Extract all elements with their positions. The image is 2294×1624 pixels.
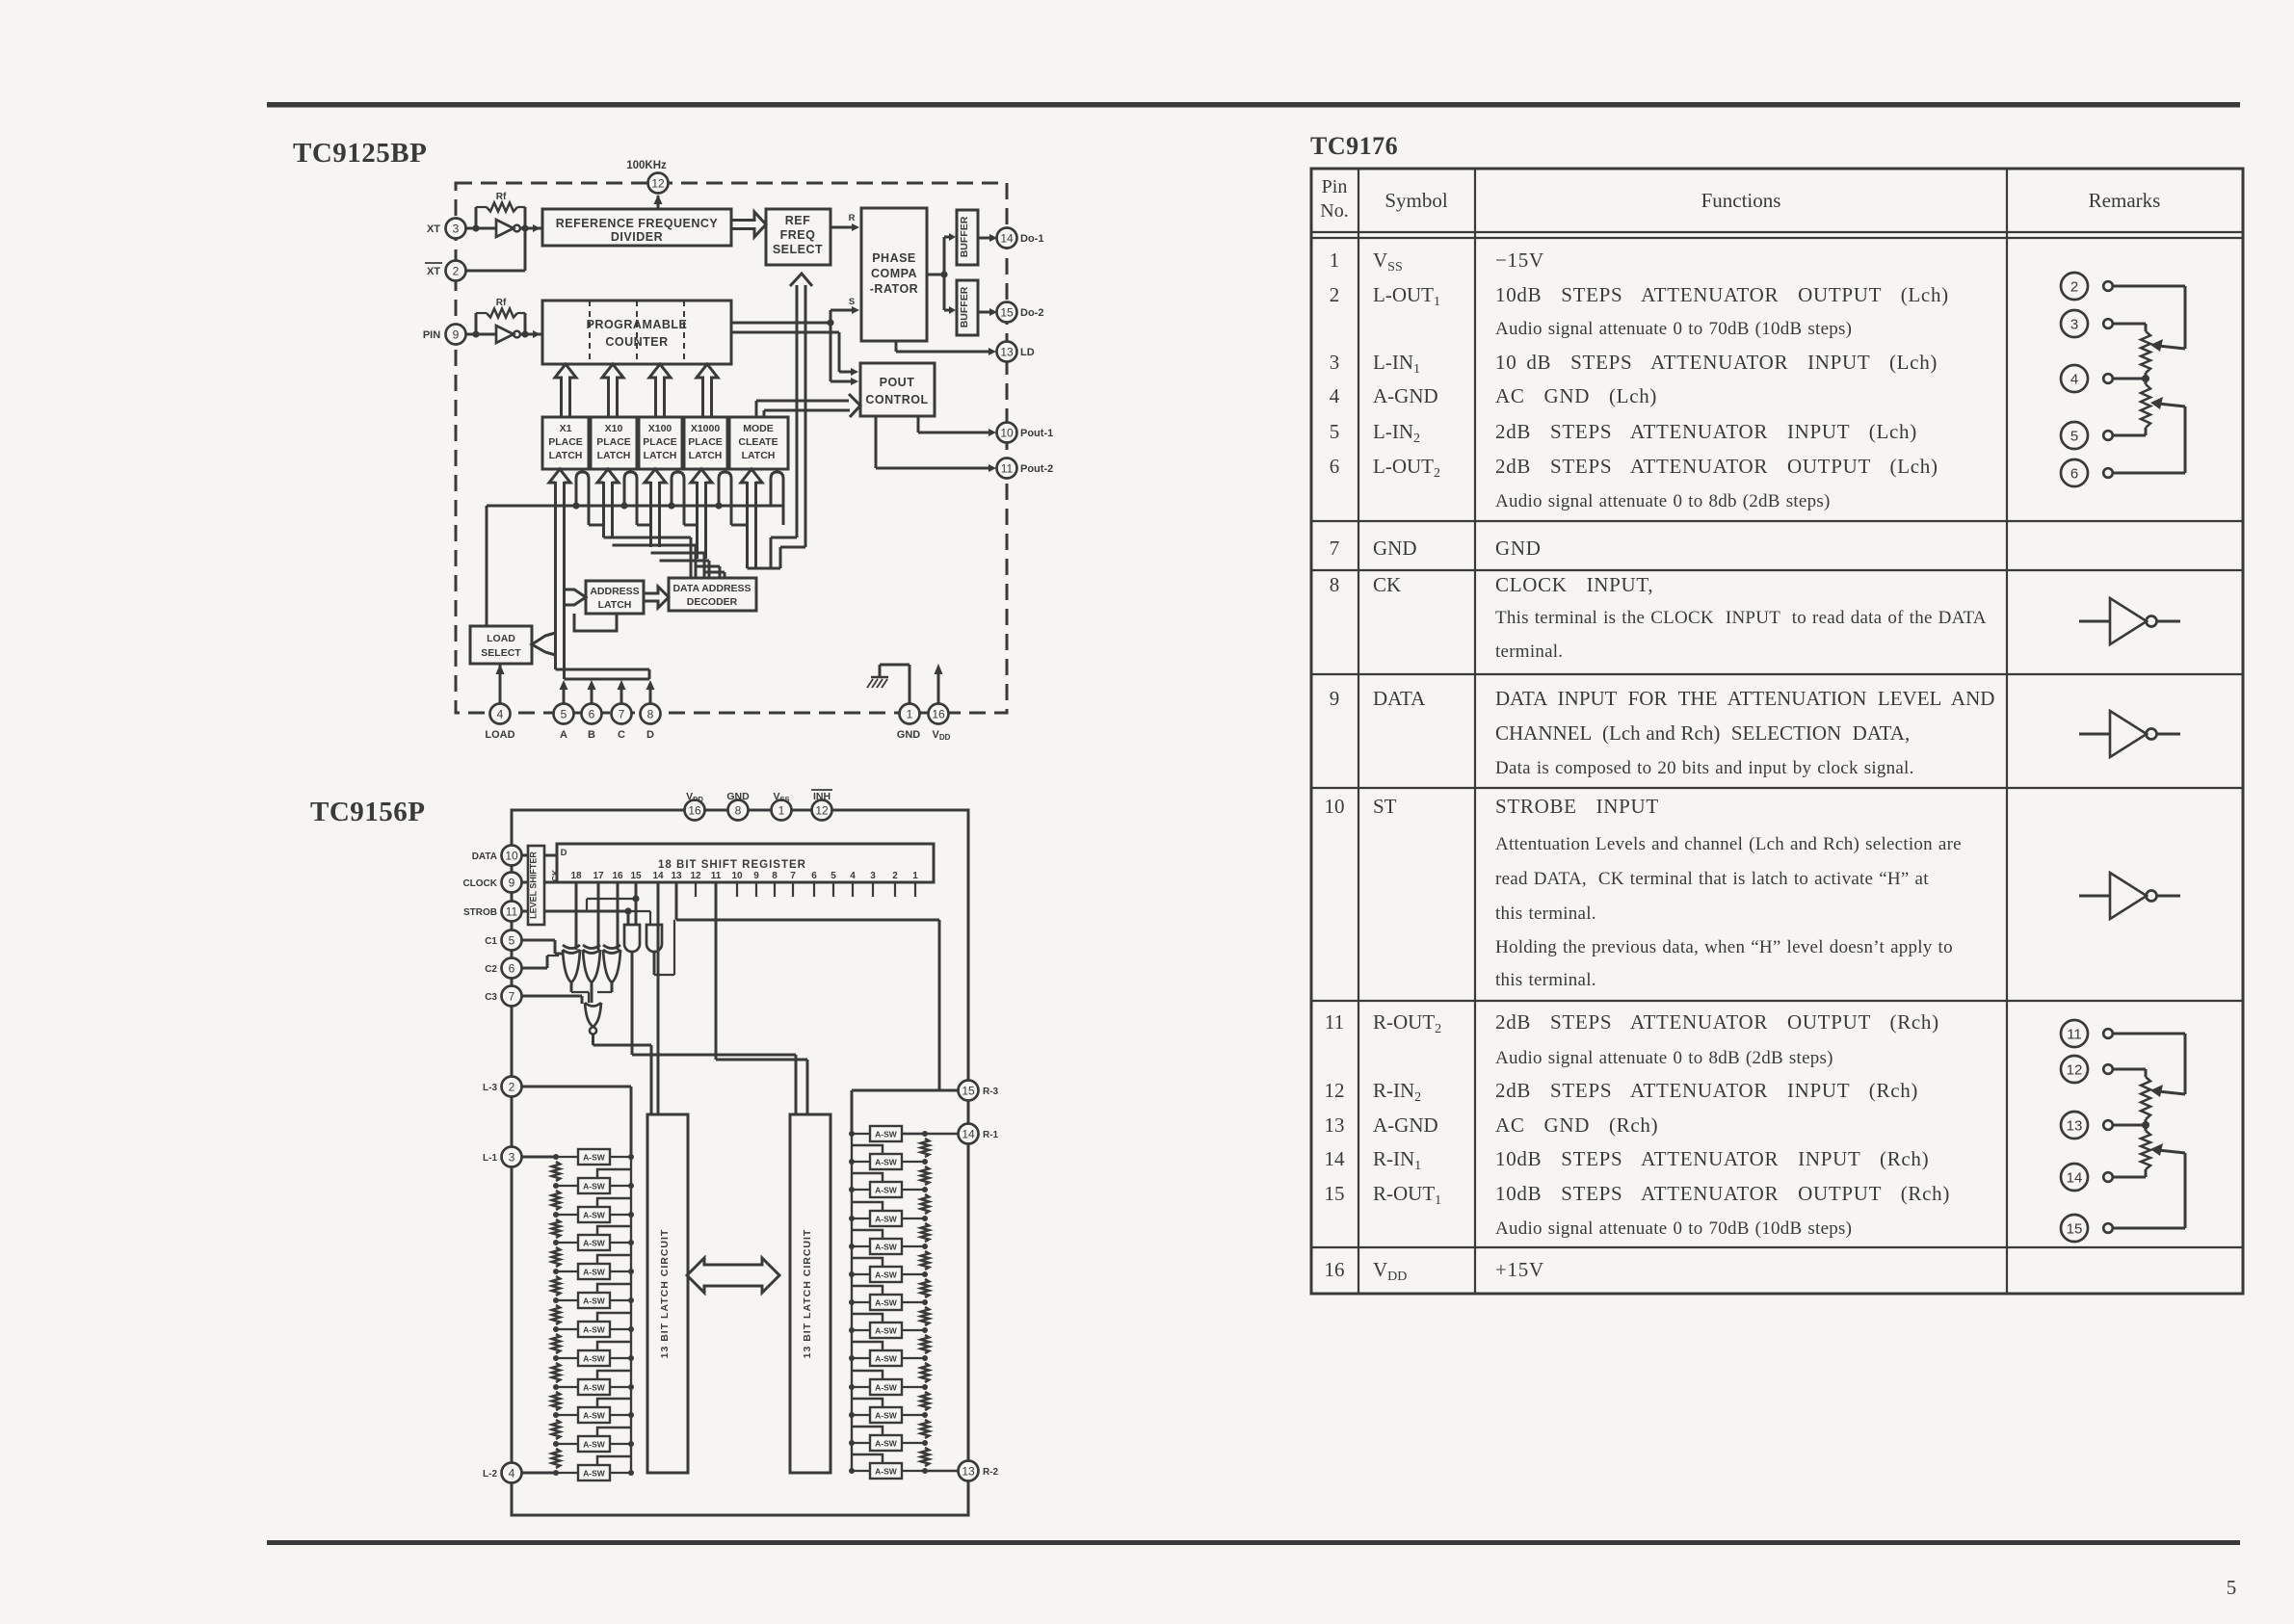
- svg-text:MODE: MODE: [743, 423, 774, 434]
- svg-text:terminal.: terminal.: [1495, 642, 1563, 662]
- pin 15 R-3: [959, 1081, 999, 1101]
- resistor ladder R6: [921, 1279, 929, 1297]
- pin 3 L-1: [483, 1147, 522, 1167]
- svg-text:X1: X1: [560, 423, 572, 434]
- resistor ladder R7: [921, 1307, 929, 1325]
- svg-text:A-SW: A-SW: [583, 1469, 606, 1479]
- wire A-D input channel: [556, 669, 650, 679]
- switch A-SW R7: [849, 1286, 928, 1310]
- svg-text:VDD: VDD: [1373, 1258, 1407, 1284]
- pin 11 STROB: [463, 902, 522, 922]
- svg-text:A-SW: A-SW: [875, 1354, 898, 1364]
- svg-text:9: 9: [453, 327, 460, 341]
- wire NOR output to left latch: [593, 1035, 652, 1114]
- block PHASE COMPARATOR: [861, 208, 927, 341]
- wire data bus into X100 latch (open arrow): [645, 469, 666, 483]
- wire latch data exchange (double open arrow): [687, 1258, 779, 1293]
- svg-text:3: 3: [870, 871, 876, 881]
- switch A-SW L5: [553, 1255, 634, 1279]
- svg-text:C: C: [618, 729, 625, 741]
- gate G2 (OR): [583, 945, 600, 982]
- svg-text:2dB STEPS ATTENUATOR INPUT: 2dB STEPS ATTENUATOR INPUT (Lch): [1495, 420, 1917, 443]
- svg-text:PLACE: PLACE: [688, 436, 723, 448]
- switch A-SW R9: [849, 1342, 928, 1366]
- svg-text:CLOCK: CLOCK: [462, 878, 497, 889]
- wire latch1 to counter (open arrow): [555, 364, 576, 417]
- svg-text:C3: C3: [485, 992, 497, 1003]
- remark inverter (ST): [2079, 873, 2180, 919]
- svg-text:A-SW: A-SW: [875, 1411, 898, 1421]
- svg-text:L-IN1: L-IN1: [1373, 351, 1420, 377]
- wire G outputs to NOR: [571, 982, 612, 1003]
- wire S-node to POUT CONTROL input 2: [831, 323, 858, 385]
- resistor ladder R8: [921, 1335, 929, 1353]
- svg-text:LATCH: LATCH: [644, 450, 677, 461]
- svg-text:1: 1: [912, 871, 918, 881]
- svg-text:A-SW: A-SW: [583, 1297, 606, 1306]
- svg-text:10: 10: [731, 871, 743, 881]
- svg-text:2: 2: [892, 871, 898, 881]
- svg-text:17: 17: [593, 871, 604, 881]
- table row pin 2 L-OUT1: [1330, 283, 1949, 339]
- svg-text:CHANNEL (Lch and Rch) SELECT: CHANNEL (Lch and Rch) SELECTION DATA,: [1495, 721, 1910, 745]
- latch X100 PLACE LATCH: [639, 417, 682, 469]
- svg-text:L-2: L-2: [483, 1469, 497, 1480]
- svg-text:8: 8: [1330, 573, 1340, 596]
- svg-text:L-OUT2: L-OUT2: [1373, 455, 1440, 481]
- pin 2 L-3: [483, 1077, 522, 1097]
- block LOAD SELECT: [470, 626, 532, 664]
- pin 14 Do-1: [997, 228, 1044, 249]
- svg-text:GND: GND: [726, 791, 750, 802]
- svg-text:A-SW: A-SW: [875, 1298, 898, 1308]
- svg-text:5: 5: [2070, 429, 2078, 445]
- pin 4 remark terminal: [2061, 365, 2113, 392]
- svg-text:VSS: VSS: [773, 791, 789, 803]
- wire STROB to gates: [521, 895, 650, 925]
- svg-text:A-SW: A-SW: [875, 1383, 898, 1393]
- svg-text:4: 4: [509, 1466, 515, 1480]
- buffer U2 BUFFER (lower): [957, 280, 978, 335]
- resistor ladder L8: [552, 1363, 560, 1382]
- wire MODE latch to POUT CONTROL (open arrow): [756, 394, 860, 417]
- svg-text:PIN: PIN: [423, 329, 440, 341]
- pin 6 remark terminal: [2061, 459, 2113, 486]
- svg-text:7: 7: [509, 989, 515, 1003]
- resistor ladder R4: [921, 1223, 929, 1242]
- node R / wire select to phase comparator: [831, 213, 859, 231]
- svg-text:15: 15: [2067, 1221, 2083, 1238]
- wire register bit18 down to gate G1: [575, 882, 578, 950]
- svg-text:D: D: [646, 729, 654, 741]
- svg-text:R-IN2: R-IN2: [1373, 1079, 1421, 1105]
- pin 16 VDD (top): [685, 791, 705, 821]
- switch A-SW L6: [553, 1284, 634, 1308]
- svg-text:2dB STEPS ATTENUATOR OUTPUT: 2dB STEPS ATTENUATOR OUTPUT (Rch): [1495, 1010, 1939, 1034]
- wire register bit16 down to gate G3: [617, 882, 620, 950]
- svg-text:14: 14: [962, 1127, 975, 1140]
- power VDD arrow (pin16): [935, 664, 943, 703]
- wire divider to REF FREQ SELECT (open arrow): [731, 212, 766, 237]
- svg-text:6: 6: [509, 961, 515, 975]
- svg-text:8: 8: [735, 803, 742, 817]
- wire staircase to decoder input c: [698, 566, 725, 578]
- wire staircase to decoder input a: [604, 537, 697, 578]
- wire data bus into X1000 latch (open arrow): [691, 469, 712, 483]
- svg-text:DATA: DATA: [1373, 687, 1426, 710]
- svg-text:3: 3: [453, 222, 460, 235]
- pin 2 XT-bar: [425, 261, 466, 281]
- svg-text:CK: CK: [550, 869, 560, 881]
- svg-text:Pout-1: Pout-1: [1020, 428, 1053, 439]
- gate G4 (NOR): [585, 1003, 601, 1035]
- svg-text:CLEATE: CLEATE: [738, 436, 778, 448]
- wire hook legs to staircase: [589, 524, 748, 527]
- svg-text:A-GND: A-GND: [1373, 384, 1438, 407]
- table row pin 13 A-GND: [1325, 1113, 1659, 1137]
- pin 5 input A: [554, 680, 574, 741]
- svg-text:A-SW: A-SW: [583, 1182, 606, 1192]
- svg-text:15: 15: [1000, 305, 1014, 319]
- svg-text:Functions: Functions: [1701, 189, 1781, 212]
- wire ADDRESS LATCH to DECODER (open arrow): [644, 587, 669, 608]
- table row pin 12 R-IN2: [1325, 1079, 1919, 1105]
- svg-text:A-GND: A-GND: [1373, 1113, 1438, 1137]
- svg-text:LOAD: LOAD: [485, 729, 514, 741]
- pin 13 remark terminal: [2061, 1112, 2113, 1139]
- resistor ladder R11: [921, 1420, 929, 1438]
- wire data bus into X1 latch (open arrow long shaft): [549, 469, 570, 483]
- table row pin 15 R-OUT1: [1325, 1182, 1951, 1239]
- svg-text:B: B: [588, 729, 595, 741]
- svg-text:R-OUT2: R-OUT2: [1373, 1010, 1441, 1036]
- svg-text:Pin: Pin: [1322, 176, 1348, 197]
- pin 7 C3: [485, 986, 521, 1007]
- table row pin 10 ST: [1325, 795, 1962, 990]
- wire register bit11 to right latch: [716, 882, 807, 1114]
- svg-text:SELECT: SELECT: [773, 243, 823, 256]
- svg-text:A-SW: A-SW: [875, 1158, 898, 1167]
- svg-text:10dB STEPS ATTENUATOR OUTPU: 10dB STEPS ATTENUATOR OUTPUT (Rch): [1495, 1182, 1950, 1205]
- svg-text:11: 11: [1325, 1010, 1344, 1034]
- switch A-SW R1: [849, 1126, 928, 1141]
- svg-text:14: 14: [652, 871, 664, 881]
- svg-text:TC9176: TC9176: [1310, 132, 1398, 160]
- wire C2 to gates: [521, 956, 559, 968]
- svg-text:R-OUT1: R-OUT1: [1373, 1182, 1441, 1208]
- pin 10 DATA: [472, 846, 522, 866]
- block REFERENCE FREQUENCY DIVIDER: [542, 209, 731, 246]
- wire counter to POUT CONTROL input 1: [731, 332, 858, 376]
- table row pin 11 R-OUT2: [1325, 1010, 1939, 1068]
- svg-text:CLOCK INPUT,: CLOCK INPUT,: [1495, 573, 1653, 596]
- switch A-SW R10: [849, 1371, 928, 1395]
- svg-text:No.: No.: [1320, 200, 1348, 222]
- svg-text:this terminal.: this terminal.: [1495, 904, 1596, 924]
- svg-text:6: 6: [1330, 455, 1340, 478]
- wire divider to pin12 with arrow: [654, 195, 663, 209]
- switch A-SW R4: [849, 1202, 928, 1226]
- svg-text:13: 13: [2067, 1118, 2083, 1135]
- pin 6 input B: [582, 680, 602, 741]
- svg-text:A-SW: A-SW: [875, 1243, 898, 1252]
- table row pin 4 A-GND: [1330, 384, 1657, 407]
- block REF FREQ SELECT: [766, 209, 831, 265]
- svg-text:A-SW: A-SW: [875, 1439, 898, 1449]
- wire C3 to NOR gate: [521, 996, 582, 1004]
- resistor ladder R5: [921, 1251, 929, 1270]
- latch X10 PLACE LATCH: [591, 417, 637, 469]
- svg-text:Audio signal attenuate 0 to 8d: Audio signal attenuate 0 to 8dB (2dB ste…: [1495, 1048, 1833, 1068]
- pin 8 GND (top): [726, 791, 750, 821]
- latch MODE CLEATE LATCH: [729, 417, 788, 469]
- svg-text:8: 8: [772, 871, 778, 881]
- resistor ladder L3: [552, 1219, 560, 1238]
- wire right switch input bus: [851, 1134, 853, 1471]
- svg-text:5: 5: [2227, 1576, 2237, 1599]
- svg-text:LATCH: LATCH: [598, 599, 632, 611]
- wire data bus into X10 latch (open arrow): [597, 469, 619, 483]
- switch A-SW R12: [849, 1427, 928, 1451]
- wire ADDRESS LATCH lower loop: [574, 614, 617, 631]
- svg-text:15: 15: [962, 1084, 975, 1097]
- svg-text:3: 3: [509, 1150, 515, 1164]
- pin 5 remark terminal: [2061, 422, 2113, 449]
- svg-text:L-3: L-3: [483, 1083, 497, 1093]
- pin 14 R-1: [959, 1124, 999, 1144]
- gate A2 (AND): [646, 925, 662, 952]
- svg-text:A-SW: A-SW: [583, 1153, 606, 1163]
- latch X1 PLACE LATCH: [542, 417, 589, 469]
- svg-text:7: 7: [790, 871, 796, 881]
- svg-text:A-SW: A-SW: [583, 1325, 606, 1335]
- pin 12 (100KHz out): [648, 173, 669, 194]
- svg-text:X10: X10: [605, 423, 623, 434]
- svg-text:Attentuation Levels and channe: Attentuation Levels and channel (Lch and…: [1495, 834, 1962, 854]
- svg-text:DIVIDER: DIVIDER: [611, 230, 663, 244]
- table row pin 16 VDD: [1325, 1258, 1544, 1284]
- table row pin 8 CK: [1330, 573, 1987, 662]
- wire register bit14 down to left latch: [657, 882, 660, 1114]
- svg-text:2: 2: [453, 264, 460, 277]
- svg-text:DATA ADDRESS: DATA ADDRESS: [672, 583, 751, 594]
- svg-text:−15V: −15V: [1495, 249, 1544, 272]
- svg-text:COUNTER: COUNTER: [605, 335, 668, 349]
- pin 13 R-2: [959, 1461, 999, 1481]
- switch A-SW L8: [553, 1342, 634, 1366]
- svg-text:8: 8: [647, 707, 654, 720]
- wire R-2 row: [925, 1470, 959, 1472]
- block PROGRAMABLE COUNTER: [542, 301, 731, 364]
- svg-text:STROBE INPUT: STROBE INPUT: [1495, 795, 1659, 818]
- svg-text:LATCH: LATCH: [597, 450, 631, 461]
- svg-text:VSS: VSS: [1373, 249, 1403, 275]
- svg-text:2: 2: [1330, 283, 1340, 306]
- svg-text:PLACE: PLACE: [596, 436, 631, 448]
- svg-text:GND: GND: [1373, 537, 1417, 560]
- svg-text:CONTROL: CONTROL: [865, 393, 928, 406]
- resistor ladder L6: [552, 1305, 560, 1324]
- svg-text:Do-1: Do-1: [1020, 233, 1043, 245]
- svg-text:12: 12: [1325, 1079, 1345, 1102]
- svg-text:COMPA: COMPA: [871, 267, 917, 280]
- resistor ladder R2: [921, 1166, 929, 1185]
- svg-text:POUT: POUT: [880, 376, 915, 389]
- wire A2 output down: [654, 920, 674, 975]
- svg-text:TC9125BP: TC9125BP: [293, 138, 427, 169]
- svg-text:L-OUT1: L-OUT1: [1373, 283, 1440, 309]
- wire buffer U1 to pin 14: [978, 234, 997, 242]
- svg-text:10: 10: [505, 849, 518, 862]
- svg-text:11: 11: [1001, 461, 1014, 475]
- svg-text:5: 5: [561, 707, 567, 720]
- svg-text:7: 7: [1330, 537, 1340, 560]
- svg-text:read DATA, CK terminal that i: read DATA, CK terminal that is latch to …: [1495, 869, 1929, 889]
- svg-text:Do-2: Do-2: [1020, 307, 1043, 319]
- pin 11 remark terminal: [2061, 1020, 2113, 1047]
- svg-text:A-SW: A-SW: [875, 1270, 898, 1280]
- buffer U1 BUFFER (upper): [957, 210, 978, 265]
- table headers: [1320, 176, 2160, 222]
- table row pin 5 L-IN2: [1330, 420, 1917, 446]
- svg-text:9: 9: [509, 876, 515, 889]
- svg-text:4: 4: [1330, 384, 1340, 407]
- wire latch2 to counter (open arrow): [602, 364, 623, 417]
- resistor ladder L10: [552, 1420, 560, 1439]
- svg-text:ADDRESS: ADDRESS: [590, 586, 639, 597]
- wire shaft branch to LOAD SELECT (open arrow): [532, 633, 556, 655]
- wire staircase mode to select shaft: [748, 537, 806, 568]
- svg-text:11: 11: [506, 904, 518, 918]
- svg-text:REFERENCE FREQUENCY: REFERENCE FREQUENCY: [556, 217, 719, 230]
- svg-text:LD: LD: [1020, 347, 1035, 358]
- register bit tick marks: [676, 882, 915, 897]
- svg-text:LOAD: LOAD: [487, 633, 515, 644]
- svg-text:X1000: X1000: [691, 423, 721, 434]
- svg-text:INH: INH: [813, 791, 831, 802]
- svg-text:1: 1: [778, 803, 785, 817]
- svg-text:16: 16: [688, 803, 701, 817]
- svg-text:2: 2: [2070, 279, 2078, 296]
- svg-text:3: 3: [1330, 351, 1340, 374]
- wire POUT CONTROL to pin 10: [918, 416, 996, 436]
- svg-text:R: R: [849, 213, 856, 223]
- svg-text:Audio signal attenuate 0 to 8d: Audio signal attenuate 0 to 8db (2dB ste…: [1495, 491, 1831, 511]
- pin 3 XT: [427, 219, 466, 239]
- switch A-SW R8: [849, 1314, 928, 1338]
- svg-text:Rf: Rf: [496, 192, 507, 202]
- svg-text:A-SW: A-SW: [875, 1467, 898, 1477]
- svg-text:14: 14: [1000, 231, 1014, 245]
- svg-text:Rf: Rf: [496, 298, 507, 308]
- svg-text:15: 15: [630, 871, 642, 881]
- gate G3 (OR): [603, 945, 620, 982]
- svg-text:2: 2: [509, 1080, 515, 1093]
- wire staircase to decoder input b: [651, 553, 710, 578]
- svg-text:Remarks: Remarks: [2089, 189, 2161, 212]
- svg-text:3: 3: [2070, 317, 2078, 333]
- wire register bit13 T-bus: [676, 882, 939, 1090]
- svg-text:13 BIT LATCH CIRCUIT: 13 BIT LATCH CIRCUIT: [802, 1229, 813, 1359]
- svg-text:16: 16: [1325, 1258, 1345, 1281]
- svg-text:C2: C2: [485, 964, 497, 975]
- pin 8 input D: [641, 680, 661, 741]
- wire left switch output bus: [630, 1157, 632, 1473]
- svg-text:10dB STEPS ATTENUATOR OUTPU: 10dB STEPS ATTENUATOR OUTPUT (Lch): [1495, 283, 1949, 306]
- svg-text:Pout-2: Pout-2: [1020, 463, 1053, 475]
- svg-text:LATCH: LATCH: [549, 450, 583, 461]
- svg-text:XT: XT: [427, 266, 440, 277]
- wire bus to LOAD SELECT: [486, 506, 488, 626]
- wire register bit15 down to AND A1: [635, 882, 638, 925]
- svg-text:LATCH: LATCH: [742, 450, 776, 461]
- svg-text:AC GND (Rch): AC GND (Rch): [1495, 1113, 1658, 1137]
- svg-text:18 BIT SHIFT REGISTER: 18 BIT SHIFT REGISTER: [658, 859, 806, 871]
- resistor ladder R9: [921, 1363, 929, 1382]
- switch A-SW L2: [553, 1169, 634, 1193]
- wire latch4 strobe hook: [719, 472, 731, 525]
- svg-text:AC GND (Lch): AC GND (Lch): [1495, 384, 1657, 407]
- wire latch3 strobe hook: [672, 472, 684, 525]
- svg-text:ST: ST: [1373, 795, 1397, 818]
- gate A1 (AND): [624, 925, 640, 952]
- pin 1 GND: [897, 704, 921, 742]
- wire CLOCK to shift register CK: [521, 881, 557, 884]
- svg-text:16: 16: [932, 707, 945, 720]
- block DATA ADDRESS DECODER: [669, 578, 756, 611]
- wire latch2 strobe hook: [624, 472, 637, 525]
- svg-text:REF: REF: [785, 214, 811, 227]
- svg-text:100KHz: 100KHz: [626, 160, 667, 171]
- wire latch3 to counter (open arrow): [649, 364, 671, 417]
- svg-text:18: 18: [570, 871, 582, 881]
- pin 15 remark terminal: [2061, 1215, 2113, 1242]
- svg-text:6: 6: [2070, 466, 2078, 483]
- pin 15 Do-2: [997, 302, 1044, 323]
- svg-text:13: 13: [671, 871, 682, 881]
- svg-text:5: 5: [1330, 420, 1340, 443]
- switch A-SW R5: [849, 1230, 928, 1254]
- switch A-SW R6: [849, 1258, 928, 1282]
- switch A-SW L3: [553, 1198, 634, 1222]
- resistor ladder L4: [552, 1247, 560, 1267]
- svg-text:LEVEL SHIFTER: LEVEL SHIFTER: [529, 851, 539, 919]
- svg-text:+15V: +15V: [1495, 1258, 1544, 1281]
- svg-text:A-SW: A-SW: [583, 1239, 606, 1248]
- remark inverter (CK): [2079, 598, 2180, 644]
- svg-text:13: 13: [962, 1464, 975, 1478]
- wire pin2 to inverter output node: [466, 228, 525, 271]
- svg-text:5: 5: [831, 871, 836, 881]
- wire POUT CONTROL to pin 11: [876, 416, 996, 472]
- svg-text:A-SW: A-SW: [875, 1186, 898, 1195]
- wire L-3 to left switch bus: [521, 1087, 631, 1157]
- wire latch1 strobe hook: [576, 472, 589, 525]
- wire L-1 to attenuator chain: [521, 1156, 556, 1159]
- resistor ladder R1: [921, 1139, 929, 1157]
- svg-text:1: 1: [1330, 249, 1340, 272]
- switch A-SW R2: [849, 1145, 928, 1169]
- svg-text:9: 9: [753, 871, 759, 881]
- svg-text:6: 6: [589, 707, 595, 720]
- latch X1000 PLACE LATCH: [684, 417, 727, 469]
- svg-text:this terminal.: this terminal.: [1495, 970, 1596, 990]
- svg-text:10: 10: [1000, 426, 1014, 439]
- svg-text:A-SW: A-SW: [583, 1440, 606, 1450]
- resistor Rf (PIN feedback): [472, 298, 528, 338]
- resistor ladder L9: [552, 1392, 560, 1410]
- resistor ladder R12: [921, 1448, 929, 1466]
